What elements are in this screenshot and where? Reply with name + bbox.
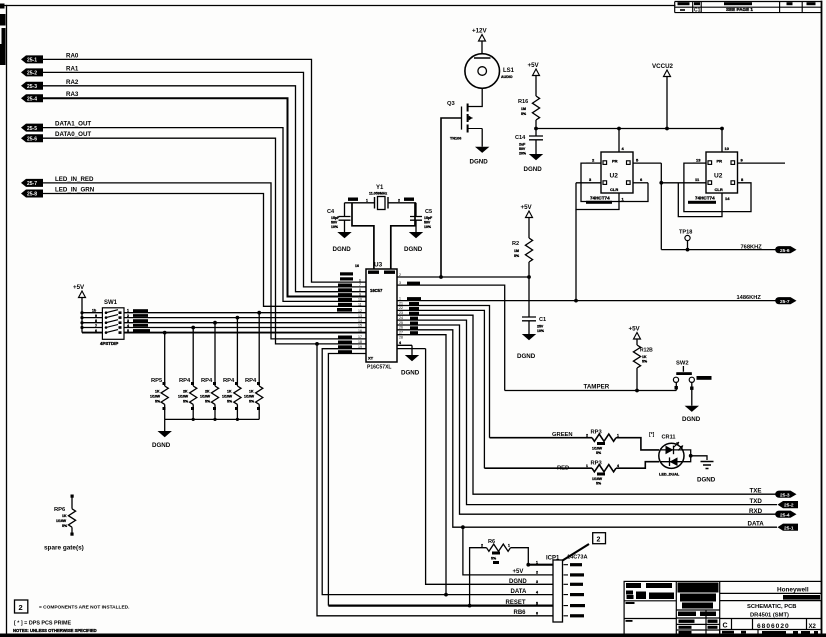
resistor RP4 b — [200, 321, 219, 420]
wire CR11 to ground — [684, 450, 707, 462]
svg-text:5%: 5% — [491, 557, 497, 561]
wire RP common rail — [165, 418, 260, 420]
svg-text:R16: R16 — [518, 99, 528, 105]
off-page connector DATA0_OUT — [21, 131, 91, 142]
svg-text:10: 10 — [725, 146, 730, 151]
power +5V (R2) — [521, 204, 533, 238]
off-page connector LED_IN_RED — [21, 176, 94, 187]
svg-text:2: 2 — [127, 314, 129, 318]
wire U2b Qbar pin8 loop — [684, 163, 751, 212]
svg-text:20%: 20% — [519, 152, 527, 156]
svg-text:U3: U3 — [374, 262, 383, 269]
svg-text:5%: 5% — [227, 400, 233, 404]
U3 right net label blobs — [407, 282, 421, 335]
svg-text:U2: U2 — [610, 173, 619, 180]
svg-text:RP4: RP4 — [179, 378, 191, 384]
svg-text:16: 16 — [355, 264, 359, 268]
svg-text:SW2: SW2 — [676, 361, 689, 367]
resistor RP4 d — [244, 311, 263, 420]
svg-text:50V: 50V — [519, 147, 526, 151]
wire LED_IN_RED — [43, 183, 366, 339]
transistor Q3 — [447, 101, 482, 141]
svg-text:1M: 1M — [521, 107, 526, 111]
svg-text:RP4: RP4 — [245, 378, 257, 384]
switch SW2 — [673, 361, 711, 406]
U3 right pin stubs — [397, 285, 505, 390]
svg-text:7: 7 — [359, 283, 361, 287]
svg-text:U2: U2 — [714, 173, 723, 180]
wire RA2 — [43, 86, 366, 292]
svg-text:15pF: 15pF — [424, 216, 433, 220]
svg-text:11: 11 — [358, 303, 362, 307]
flip-flop U2 (first half) — [601, 152, 633, 193]
capacitor C4 — [327, 203, 351, 232]
svg-text:22: 22 — [399, 306, 403, 310]
svg-text:1: 1 — [399, 296, 401, 300]
wire U2a Q pin5 — [633, 162, 661, 164]
svg-text:DGND: DGND — [509, 579, 527, 585]
svg-text:SCHEMATIC, PCB: SCHEMATIC, PCB — [747, 604, 797, 610]
wire RB6 to ICP1 — [317, 344, 553, 616]
wire SW1 bus row1 MULTI1 — [82, 312, 366, 314]
wire SW1 bus row5 MULTI5 (thick) — [82, 332, 366, 334]
svg-text:28: 28 — [399, 335, 403, 339]
resistor R2 — [512, 238, 533, 317]
svg-text:TXD: TXD — [750, 498, 763, 505]
svg-text:25-3: 25-3 — [27, 84, 37, 90]
svg-text:1K: 1K — [227, 390, 232, 394]
svg-text:19: 19 — [358, 345, 362, 349]
wire RA3 (thick) — [43, 98, 366, 296]
svg-text:5%: 5% — [62, 524, 68, 528]
svg-text:5%: 5% — [642, 360, 648, 364]
svg-text:25-4: 25-4 — [780, 512, 790, 518]
svg-text:74HCT74: 74HCT74 — [695, 196, 715, 201]
wire VCC rail to U2 — [536, 128, 722, 130]
wire U2b pin10 — [721, 129, 723, 153]
svg-text:DGND: DGND — [401, 370, 420, 377]
svg-text:2: 2 — [398, 199, 400, 203]
off-page connector RA0 — [21, 52, 79, 63]
svg-text:25-6: 25-6 — [27, 136, 37, 142]
svg-text:Q3: Q3 — [447, 101, 456, 107]
svg-text:6806020: 6806020 — [757, 623, 790, 630]
ground DGND (C5) — [404, 232, 423, 253]
svg-text:= COMPONENTS ARE NOT INSTALLE: = COMPONENTS ARE NOT INSTALLED. — [39, 605, 129, 611]
svg-text:R2: R2 — [512, 241, 519, 247]
off-page connector RA3 — [21, 91, 79, 102]
svg-text:9: 9 — [95, 314, 97, 318]
svg-text:C14: C14 — [515, 135, 526, 141]
svg-text:LED_DUAL: LED_DUAL — [659, 473, 680, 477]
svg-text:25-8: 25-8 — [27, 192, 37, 198]
resistor RP3 (green) — [490, 430, 660, 456]
U3 right pin numbers — [399, 273, 403, 340]
wire U2a feedback loop Qbar-D — [581, 163, 648, 201]
svg-text:LED_IN_GRN: LED_IN_GRN — [55, 187, 95, 194]
resistor R12B — [633, 345, 653, 391]
svg-text:X2: X2 — [809, 624, 817, 630]
svg-text:21: 21 — [399, 301, 403, 305]
svg-text:1/16W: 1/16W — [592, 447, 603, 451]
node RB6 junction on DATA0 wire — [315, 342, 319, 346]
wire ICP1 to note box 2 — [563, 544, 590, 561]
power +5V (R12B) — [629, 326, 641, 346]
svg-text:1K: 1K — [155, 390, 160, 394]
svg-text:CR11: CR11 — [662, 435, 676, 441]
svg-text:XT: XT — [368, 356, 374, 361]
wire Y1 pedestal to U3 osc pins — [352, 203, 415, 269]
sounder LS1 — [465, 54, 515, 89]
off-page connector DATA1_OUT — [21, 121, 91, 132]
wire RXD from U3 — [397, 325, 776, 514]
svg-text:25V: 25V — [537, 325, 544, 329]
wire RA0 — [43, 59, 366, 282]
power +5V (R16) — [528, 62, 540, 96]
svg-text:1K: 1K — [62, 514, 67, 518]
svg-text:DATA: DATA — [511, 589, 527, 595]
connector ICP1 — [546, 555, 588, 623]
ground DGND (C4) — [333, 232, 352, 253]
wire Q3 source to ground — [481, 129, 483, 147]
wire U2a pin4 — [618, 129, 620, 153]
svg-text:25-6: 25-6 — [780, 248, 790, 254]
wire U2a CLR loop — [576, 183, 619, 210]
svg-text:25-5: 25-5 — [27, 126, 37, 132]
svg-text:3: 3 — [127, 319, 129, 323]
wire 1486KHZ from U3 — [397, 300, 776, 302]
resistor RP6 (spare) — [54, 495, 76, 536]
svg-text:14: 14 — [358, 319, 362, 323]
svg-text:DGND: DGND — [517, 353, 536, 360]
wire U2a Qbar pin6 — [633, 182, 648, 184]
ground DGND (U3) — [401, 345, 420, 376]
svg-text:2K: 2K — [183, 390, 188, 394]
svg-text:DATA: DATA — [748, 521, 765, 528]
off-page connector TXE — [775, 491, 796, 499]
svg-text:4: 4 — [617, 464, 619, 468]
svg-text:16C57: 16C57 — [370, 288, 383, 293]
svg-text:23: 23 — [399, 311, 403, 315]
svg-text:25-2: 25-2 — [784, 503, 794, 509]
svg-text:10%: 10% — [331, 225, 339, 229]
svg-text:13: 13 — [358, 314, 362, 318]
crystal Y1 — [345, 185, 417, 210]
wire U3 ground pins — [397, 345, 426, 348]
svg-text:25-2: 25-2 — [27, 71, 37, 77]
svg-text:25-7: 25-7 — [780, 299, 790, 305]
svg-text:1/16W: 1/16W — [592, 477, 603, 481]
wire DATA out from U3 — [397, 330, 777, 527]
wire U2a Q to U2b clk and 768 tap — [660, 163, 662, 250]
title block approvals cell — [678, 583, 719, 635]
svg-text:1: 1 — [617, 434, 619, 438]
off-page connector TXD — [778, 501, 799, 509]
svg-text:25: 25 — [399, 321, 403, 325]
svg-text:RP5: RP5 — [151, 378, 163, 384]
svg-text:TAMPER: TAMPER — [584, 384, 610, 391]
ground DGND (Q3) — [470, 147, 490, 166]
svg-text:25-7: 25-7 — [27, 181, 37, 187]
svg-text:1: 1 — [508, 544, 510, 548]
off-page connector RA1 — [21, 65, 79, 76]
svg-text:spare gate(s): spare gate(s) — [44, 545, 84, 552]
svg-text:24: 24 — [399, 316, 403, 320]
svg-text:5%: 5% — [205, 400, 211, 404]
svg-text:27: 27 — [399, 331, 403, 335]
svg-text:R12B: R12B — [640, 348, 653, 354]
svg-text:1/16W: 1/16W — [200, 395, 211, 399]
resistor RP3 (red) — [484, 461, 659, 486]
wire U2b D pin12 stub — [693, 162, 706, 164]
svg-text:SW1: SW1 — [104, 300, 118, 306]
U3 left pin numbers — [358, 278, 362, 349]
svg-text:5: 5 — [536, 601, 538, 605]
svg-text:TN106: TN106 — [450, 137, 461, 141]
svg-text:1/16W: 1/16W — [178, 395, 189, 399]
resistor RP4 a — [178, 326, 197, 420]
svg-text:RB6: RB6 — [514, 610, 527, 616]
svg-text:14: 14 — [725, 196, 730, 201]
svg-text:6: 6 — [95, 329, 97, 333]
svg-text:C: C — [723, 623, 728, 630]
svg-text:Honeywell: Honeywell — [777, 587, 809, 594]
svg-text:RA2: RA2 — [66, 79, 79, 86]
power +12V — [472, 28, 487, 54]
wire TAMPER — [505, 390, 677, 392]
svg-text:DGND: DGND — [697, 477, 716, 484]
svg-text:25-3: 25-3 — [780, 492, 790, 498]
svg-text:12: 12 — [358, 309, 362, 313]
svg-text:RP3: RP3 — [591, 430, 603, 436]
border frame left — [6, 6, 8, 636]
svg-text:2: 2 — [536, 571, 538, 575]
svg-text:11.059MHz: 11.059MHz — [369, 192, 387, 196]
ground DGND (C1) — [517, 334, 536, 360]
svg-text:DR4501 (SMT): DR4501 (SMT) — [750, 613, 789, 619]
svg-text:2K: 2K — [205, 390, 210, 394]
svg-text:1: 1 — [536, 561, 538, 565]
svg-text:5%: 5% — [249, 400, 255, 404]
svg-text:PR: PR — [612, 159, 618, 164]
svg-text:10%: 10% — [424, 225, 432, 229]
revision table — [675, 2, 822, 13]
svg-text:TP18: TP18 — [679, 230, 692, 236]
svg-text:1: 1 — [127, 309, 129, 313]
switch SW1 — [92, 300, 129, 346]
svg-text:17: 17 — [358, 335, 362, 339]
svg-text:RA3: RA3 — [66, 91, 79, 98]
ground DGND (SW2) — [682, 406, 701, 423]
svg-text:CLR: CLR — [715, 187, 723, 192]
flip-flop U2 (second half) — [706, 152, 738, 193]
svg-text:1/16W: 1/16W — [150, 395, 161, 399]
svg-text:10%: 10% — [537, 329, 545, 333]
ground DGND (CR11) — [697, 462, 716, 484]
svg-text:5%: 5% — [155, 400, 161, 404]
svg-text:15: 15 — [358, 324, 362, 328]
svg-text:6: 6 — [536, 612, 538, 616]
svg-text:DATA1_OUT: DATA1_OUT — [55, 121, 91, 128]
svg-text:9: 9 — [359, 293, 361, 297]
svg-text:1/16W: 1/16W — [222, 395, 233, 399]
wire U2a CLK pin2 — [586, 162, 601, 164]
svg-text:50V: 50V — [424, 221, 431, 225]
title block signatures cell — [626, 583, 675, 622]
svg-text:RP4: RP4 — [223, 378, 235, 384]
wire ICP DATA feed from U3 — [397, 335, 446, 595]
svg-text:5%: 5% — [596, 482, 602, 486]
svg-text:768KHZ: 768KHZ — [741, 245, 763, 251]
wire LS1 to Q3 drain — [468, 88, 483, 106]
wire 768KHZ — [661, 249, 776, 251]
svg-text:5%: 5% — [183, 400, 189, 404]
svg-text:+5V: +5V — [513, 569, 524, 575]
svg-text:5: 5 — [127, 329, 129, 333]
svg-text:DATA0_OUT: DATA0_OUT — [55, 131, 91, 138]
off-page connector 1486KHZ — [775, 297, 796, 305]
svg-text:DGND: DGND — [682, 416, 701, 423]
svg-text:3: 3 — [399, 281, 401, 285]
wire U2b Q pin9 — [738, 162, 786, 164]
border frame right — [821, 2, 823, 636]
border frame top — [0, 5, 675, 7]
svg-text:SEE PAGE 1: SEE PAGE 1 — [726, 7, 753, 12]
svg-text:RA1: RA1 — [66, 65, 79, 72]
svg-text:CLR: CLR — [610, 187, 618, 192]
wire Q3 gate — [441, 118, 462, 277]
capacitor C5 — [410, 203, 433, 232]
capacitor C1 — [522, 317, 546, 334]
svg-text:RP6: RP6 — [54, 507, 66, 513]
wire SW1 bus row3 MULTI3 — [82, 322, 366, 324]
U3 left net label blobs — [337, 272, 353, 353]
svg-text:13: 13 — [696, 158, 701, 163]
wire GREEN from U3 — [397, 306, 490, 438]
wire U3 clk line to R2 — [397, 276, 529, 278]
svg-text:+5V: +5V — [629, 326, 641, 333]
svg-text:TXE: TXE — [750, 487, 762, 494]
wire RESET from U3 to ICP1 — [328, 354, 366, 606]
svg-text:+12V: +12V — [472, 28, 487, 35]
svg-text:18: 18 — [358, 340, 362, 344]
svg-text:1K: 1K — [249, 390, 254, 394]
svg-text:74HCT74: 74HCT74 — [590, 196, 610, 201]
resistor R16 — [518, 96, 540, 129]
resistor RP4 c — [222, 316, 241, 420]
svg-text:DGND: DGND — [333, 246, 352, 253]
svg-text:16: 16 — [358, 329, 362, 333]
node U2a supply drop — [617, 127, 621, 131]
svg-text:25-1: 25-1 — [784, 525, 794, 531]
off-page connector RA2 — [21, 79, 79, 90]
node U2b supply drop — [720, 127, 724, 131]
svg-text:2: 2 — [481, 544, 483, 548]
svg-text:RXD: RXD — [749, 508, 763, 515]
capacitor C14 — [515, 129, 543, 156]
svg-text:P16C57XL: P16C57XL — [367, 365, 391, 371]
svg-text:5%: 5% — [596, 451, 602, 455]
svg-text:Y1: Y1 — [376, 185, 384, 191]
svg-text:[*]: [*] — [649, 432, 655, 438]
title block bottom row — [722, 631, 818, 634]
svg-text:8: 8 — [359, 288, 361, 292]
svg-text:26: 26 — [399, 326, 403, 330]
svg-text:+5V: +5V — [521, 204, 533, 211]
svg-text:4PSTDIP: 4PSTDIP — [100, 341, 118, 346]
note box 2 — [15, 600, 28, 613]
svg-text:25-4: 25-4 — [27, 96, 37, 102]
svg-text:10: 10 — [358, 298, 362, 302]
svg-text:C4: C4 — [327, 209, 335, 215]
svg-text:5%: 5% — [514, 254, 520, 258]
svg-text:5%: 5% — [521, 112, 527, 116]
svg-text:C5: C5 — [425, 209, 432, 215]
svg-text:1: 1 — [586, 464, 588, 468]
wire TXE from U3 — [397, 315, 776, 494]
off-page connector LED_IN_GRN — [21, 187, 95, 198]
microcontroller U3 — [355, 262, 397, 371]
svg-text:VCCU2: VCCU2 — [652, 63, 674, 70]
svg-text:AUDIO: AUDIO — [501, 75, 513, 79]
svg-text:1M: 1M — [514, 249, 519, 253]
svg-text:1/16W: 1/16W — [56, 519, 67, 523]
net labels MULTI at SW1 — [133, 309, 150, 332]
node R16/C14 rail junction — [534, 127, 538, 131]
svg-text:1K: 1K — [642, 355, 647, 359]
svg-text:DGND: DGND — [524, 166, 543, 173]
svg-text:LED_IN_RED: LED_IN_RED — [55, 176, 94, 183]
svg-text:1/16W: 1/16W — [244, 395, 255, 399]
svg-text:3: 3 — [536, 580, 538, 584]
resistor R6 — [468, 539, 530, 607]
svg-text:4: 4 — [399, 341, 401, 345]
wire U2a D pin3 — [576, 182, 601, 184]
svg-text:2: 2 — [399, 273, 401, 277]
wire +5V to ICP1 — [461, 525, 465, 529]
svg-text:DGND: DGND — [152, 442, 171, 449]
svg-text:8: 8 — [95, 319, 97, 323]
svg-text:2: 2 — [586, 434, 588, 438]
resistor RP5 — [150, 331, 168, 420]
wire DATA0_OUT — [43, 138, 366, 344]
svg-text:C1: C1 — [694, 7, 701, 13]
ICP1 right side pin list — [564, 565, 569, 616]
svg-text:15pF: 15pF — [331, 216, 340, 220]
svg-text:RP4: RP4 — [201, 378, 213, 384]
svg-text:2: 2 — [597, 537, 601, 544]
svg-text:2uF: 2uF — [519, 143, 526, 147]
node +5V bus taps — [80, 311, 83, 329]
off-page connector DATA — [778, 524, 799, 532]
svg-text:7: 7 — [95, 324, 97, 328]
wire DGND run to ICP1 — [426, 349, 553, 585]
wire RED from U3 — [397, 310, 484, 468]
node gate/R2 line junction — [439, 275, 443, 279]
svg-text:C1: C1 — [539, 317, 546, 323]
test point TP18 — [679, 230, 692, 252]
svg-text:50V: 50V — [331, 221, 338, 225]
wire DATA1_OUT — [43, 128, 366, 302]
wire RA1 — [43, 72, 366, 287]
svg-text:1: 1 — [366, 199, 368, 203]
svg-text:[ * ] = DPS PCS PRIME: [ * ] = DPS PCS PRIME — [14, 621, 71, 627]
svg-text:RESET: RESET — [506, 600, 526, 606]
svg-text:2: 2 — [19, 603, 23, 612]
off-page connector 768KHZ — [775, 246, 796, 254]
wire SW1 bus row2 MULTI2 — [82, 317, 366, 319]
svg-text:4: 4 — [536, 590, 538, 594]
